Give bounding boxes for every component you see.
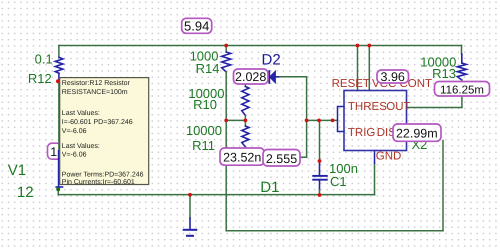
wire VCC drop [368,46,370,91]
diode D1 (hidden behind 23.52n probe box) [223,153,231,160]
wire R12 to V1 [58,73,60,80]
node bracket [331,119,335,123]
wire R12 top lead [58,46,60,58]
IC U1 555 timer box (X2) [344,91,407,151]
node probe 3.96 [377,70,409,84]
svg-text:RESISTANCE=100m: RESISTANCE=100m [62,89,128,96]
svg-text:V1: V1 [8,162,26,179]
diode D2 [268,71,270,83]
svg-text:3.96: 3.96 [381,70,405,84]
wire R14 bottom to junction [225,72,227,120]
wire V1 lead over probe box [58,143,60,150]
svg-text:2.555: 2.555 [266,152,297,166]
wire R14 top lead [225,46,227,53]
svg-text:RESET: RESET [332,78,370,90]
node probe 116.25m [435,82,490,97]
wire R11 bottom lead [244,147,246,150]
svg-text:V=-6.06: V=-6.06 [62,128,87,135]
svg-text:R14: R14 [196,61,220,76]
svg-text:R10: R10 [193,97,217,112]
wire R13 top lead [461,46,463,55]
svg-text:V=-6.06: V=-6.06 [62,152,87,159]
resistor R11 [242,126,249,147]
wire jog junction A-B [226,119,245,121]
svg-text:Last Values:: Last Values: [62,109,100,117]
voltage source V1 (mostly hidden by tooltip) [58,150,60,188]
probe box V1 value (clipped by tooltip) [48,143,72,160]
svg-text:1: 1 [50,145,57,159]
wire C1 top [319,120,321,161]
svg-text:GND: GND [376,151,402,163]
node probe 2.555 [263,150,300,167]
svg-text:Pin Currents:Ir=-60.601: Pin Currents:Ir=-60.601 [62,178,135,186]
wire column A down (D1 hidden behind value box) [225,120,227,230]
node R12 pin [56,79,60,83]
svg-text:5.94: 5.94 [184,18,209,33]
svg-text:Last Values:: Last Values: [62,142,100,150]
node rail-VCC [367,44,371,48]
wire top rail [59,45,462,47]
wire OUT horizontal [407,107,462,109]
svg-text:R11: R11 [192,138,215,153]
svg-text:D2: D2 [262,51,281,68]
wire V1 bottom [57,189,59,195]
resistor R12 [55,57,63,73]
node probe 2.028 [234,69,269,84]
wire ground tap [189,195,191,218]
IC pin bracket THRES/TRIG [338,107,345,132]
wire R10 top lead [244,84,246,87]
resistor R13 [457,63,466,80]
wire RESET drop [357,46,359,91]
wire bottom DIS return [226,230,443,232]
wire THRES-TRIG node [307,119,338,121]
svg-text:Power Terms:PD=367.246: Power Terms:PD=367.246 [62,172,144,179]
wire to 2.555 box [299,156,307,158]
resistor R14 [222,52,231,72]
node C1 top pin [318,159,322,163]
svg-text:2.028: 2.028 [235,70,266,84]
svg-text:C1: C1 [330,174,347,189]
wire bottom ground rail [58,194,374,196]
resistor R10 [242,87,249,116]
svg-text:R13: R13 [432,66,456,81]
capacitor C1 [319,161,321,175]
node A jog [224,119,228,123]
wire D2 column down [306,77,308,157]
node V1 bottom green dot [56,187,60,191]
node probe 22.99m [393,124,441,141]
wire IC GND drop [374,163,376,195]
node probe 5.94 [182,18,212,33]
svg-text:OUT: OUT [386,101,410,113]
wire DIS vertical [442,141,444,231]
node C1 bottom [318,193,322,197]
svg-text:R12: R12 [28,71,52,86]
node ground tap [188,193,192,197]
svg-text:22.99m: 22.99m [396,127,438,141]
tooltip R12 [60,78,149,187]
node B jog [244,119,248,123]
wire C1 bottom [319,190,321,195]
svg-text:12: 12 [17,184,34,201]
node rail-RESET [356,44,360,48]
node D2 column [305,119,309,123]
wire R13 bottom to OUT [461,80,463,108]
svg-text:I=-60.601 PD=367.246: I=-60.601 PD=367.246 [62,119,133,126]
svg-text:Resistor:R12 Resistor: Resistor:R12 Resistor [62,79,131,87]
wire D2 to column [280,76,307,78]
svg-text:D1: D1 [260,179,279,196]
svg-text:THRES: THRES [348,101,387,113]
node probe 23.52n [220,148,264,165]
svg-text:0.1: 0.1 [35,52,53,67]
ground [189,218,191,229]
svg-text:TRIG: TRIG [348,127,376,139]
svg-text:116.25m: 116.25m [440,84,484,96]
svg-text:23.52n: 23.52n [223,151,261,165]
svg-text:10000: 10000 [186,123,222,138]
node rail-R14 [224,44,228,48]
node C1 column [317,119,321,123]
wire R10-R11 [244,116,246,127]
